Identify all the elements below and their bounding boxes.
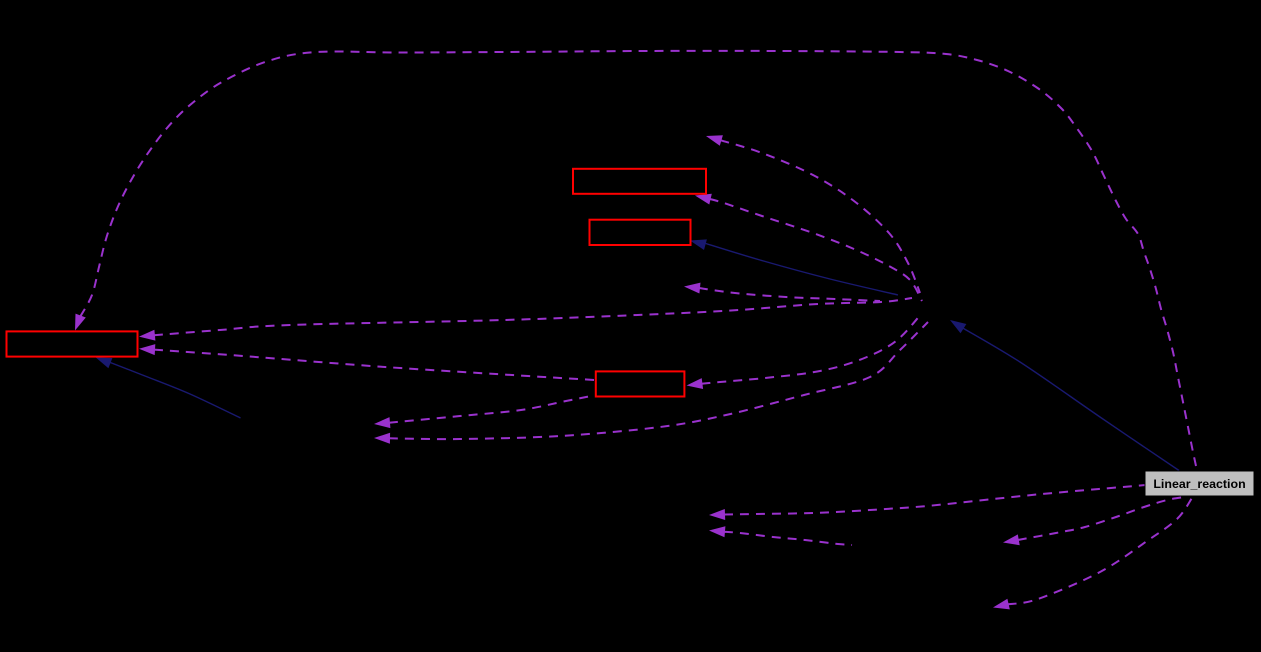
edge Linear_reaction to left arrow upper [709, 485, 1146, 520]
blue inheritance edge to left node [96, 357, 241, 418]
center red node (hidden label) [596, 371, 685, 396]
upper red node 2 (hidden label) [590, 220, 691, 245]
upper red node 1 (hidden label) [573, 169, 706, 194]
edge Linear_reaction to lower-middle arrow [1003, 497, 1185, 545]
edge hub node to middle-left arrow [684, 283, 880, 301]
edge hub node to top arrow [706, 135, 920, 293]
edge hub node to left node upper [139, 298, 912, 341]
edge hub node to node1 corner [695, 194, 922, 301]
edge hub node to center node [687, 313, 923, 389]
edge hub node to far-left lower arrow [374, 322, 928, 444]
left red node (hidden label) [7, 331, 138, 356]
edge hidden node to left arrow lower [709, 526, 852, 545]
edge center node to far-left upper arrow [374, 396, 591, 428]
edge center node to left node lower [139, 344, 595, 380]
node Linear_reaction [1145, 471, 1254, 496]
edge Linear_reaction to bottom arrow [993, 498, 1192, 609]
blue inheritance edge Linear_reaction to hub [950, 320, 1179, 471]
svg-text:Linear_reaction: Linear_reaction [1153, 477, 1245, 491]
blue inheritance edge hub to node2 [690, 239, 898, 295]
edge Linear_reaction to left node via top loop [75, 51, 1196, 466]
